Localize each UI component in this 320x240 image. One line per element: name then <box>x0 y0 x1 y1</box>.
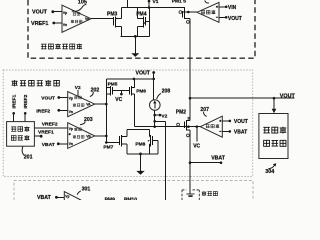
transistor PM3 <box>107 12 122 28</box>
node V2 <box>153 114 156 117</box>
wire PM8 gate (diode connect) <box>153 141 159 154</box>
node V1 (cut at top) <box>148 0 150 8</box>
wire amp202 output to bus <box>95 103 107 105</box>
svg-text:Vn: Vn <box>69 142 73 146</box>
svg-text:208: 208 <box>162 89 171 95</box>
wire right vertical of mirror <box>148 8 150 37</box>
svg-text:Vp: Vp <box>63 11 67 15</box>
transistor PM7 <box>103 135 127 151</box>
node VBAT (207 input) <box>222 130 228 132</box>
wire PM3 drain down <box>121 26 123 36</box>
node VBAT (right mid) <box>190 162 221 164</box>
svg-text:301: 301 <box>82 187 91 193</box>
svg-text:201: 201 <box>24 155 33 161</box>
wire PM5/PM6 gate tie with VC tap <box>113 91 130 94</box>
svg-text:207: 207 <box>200 107 209 113</box>
svg-text:202: 202 <box>91 87 100 93</box>
svg-text:IREF2: IREF2 <box>23 94 29 108</box>
transistor PM1 <box>172 0 190 23</box>
wire VOUT to amp 105 <box>54 11 62 13</box>
wire VREF1 to amp 105 <box>55 22 62 24</box>
svg-text:Vn: Vn <box>69 110 73 114</box>
wire arrow into other-system box <box>273 98 275 109</box>
reference bias voltage box 基准偏置电压 (201) <box>7 122 35 147</box>
svg-text:PM9: PM9 <box>105 197 116 200</box>
ground (below PM7/PM8) <box>140 154 142 171</box>
svg-text:PM10: PM10 <box>124 197 137 200</box>
svg-text:PM1: PM1 <box>172 0 182 5</box>
transistor PM6 <box>130 86 147 96</box>
svg-text:PM8: PM8 <box>135 142 145 148</box>
dashed border: bottom section box <box>14 181 253 200</box>
op-amp 202 (constant current amplifier) <box>68 92 95 117</box>
svg-text:Vo: Vo <box>85 17 89 21</box>
other system circuit box 其他系统电路 <box>259 114 288 159</box>
wire top rail <box>122 7 185 9</box>
wire PM6 source riser <box>133 79 135 88</box>
wire PM4 source riser <box>137 8 139 19</box>
svg-text:Vp: Vp <box>69 127 73 131</box>
svg-text:VBAT: VBAT <box>211 156 226 162</box>
wire PM5/PM6 source rail <box>106 78 153 80</box>
section label 输入控制部分 <box>41 44 82 50</box>
dashed border: charge control section box <box>3 70 253 177</box>
svg-text:VIN: VIN <box>228 5 237 11</box>
svg-text:V2: V2 <box>161 114 167 120</box>
svg-text:Vp: Vp <box>69 96 73 100</box>
svg-text:VOUT: VOUT <box>136 71 151 77</box>
svg-text:VC: VC <box>115 97 122 103</box>
svg-text:V1: V1 <box>153 0 159 5</box>
wire comparator/PM2 gate line <box>134 126 200 128</box>
svg-text:Vp: Vp <box>65 195 69 199</box>
svg-text:VC: VC <box>193 143 200 149</box>
svg-text:VOUT: VOUT <box>32 10 48 16</box>
op-amp 203 (constant voltage amplifier) <box>68 123 95 149</box>
svg-text:PM7: PM7 <box>103 145 113 151</box>
wire below current source <box>154 110 156 126</box>
svg-text:VBAT: VBAT <box>234 130 247 136</box>
svg-text:IREF2: IREF2 <box>36 108 50 114</box>
node VOUT (comparator input) <box>219 16 225 18</box>
svg-text:VOUT: VOUT <box>234 119 248 125</box>
svg-text:304: 304 <box>265 169 274 175</box>
current source 208 <box>150 100 161 111</box>
svg-text:VBAT: VBAT <box>37 195 52 200</box>
leader curve (cut label 106) <box>205 0 209 3</box>
dashed border: input control section box <box>28 0 255 58</box>
wire PM4 drain/gate to right vertical <box>138 22 150 37</box>
wire riser to top edge <box>127 0 129 8</box>
transistor PM5 <box>106 81 117 95</box>
comparator 207 <box>200 116 222 137</box>
svg-text:PM2: PM2 <box>176 109 187 115</box>
wire bottom rail of mirror <box>121 35 150 37</box>
wire left bus (amp outputs / PM5 drain) <box>105 79 107 142</box>
comparator (top, label cut) <box>197 2 219 22</box>
wire PM6 drain down to comparator wire <box>133 94 135 127</box>
svg-text:IREF1: IREF1 <box>12 94 18 108</box>
wire PM8 source down <box>149 144 151 154</box>
wire PM7/PM8 bottom rail <box>127 153 158 155</box>
svg-text:VOUT: VOUT <box>228 16 242 22</box>
wire PM7 source down <box>126 144 128 154</box>
wire amp203 output to bus <box>95 135 107 137</box>
wire comparator output to PM1 gate <box>182 11 197 13</box>
svg-text:VREF1: VREF1 <box>38 130 54 136</box>
battery 锂电池 (dashed enclosure) <box>182 190 217 200</box>
node VIN <box>219 6 225 8</box>
wire gate line to PM7 <box>106 141 119 143</box>
op-amp 105 (error amplifier) <box>62 5 91 32</box>
svg-text:VOUT: VOUT <box>280 93 296 99</box>
ground (below PM3/PM4) <box>134 36 136 53</box>
node VOUT (207 input) <box>222 120 228 122</box>
wire PM8 drain riser <box>149 130 151 137</box>
transistor PM4 <box>136 12 147 28</box>
svg-text:PM5: PM5 <box>108 81 118 87</box>
wire PM2 drain down to VBAT junction <box>189 130 191 194</box>
wire VOUT down to current source <box>153 73 155 100</box>
svg-text:VREF1: VREF1 <box>31 21 48 27</box>
op-amp 301 (cut at bottom) <box>64 192 80 208</box>
wire VOUT rail (to other system circuit) <box>190 97 294 99</box>
svg-text:VA: VA <box>86 103 91 107</box>
transistor PM2 <box>176 109 191 136</box>
svg-text:VOUT: VOUT <box>41 95 55 101</box>
wire amp105 output to PM3 gate <box>91 18 114 20</box>
node VC (comparator 207) <box>196 127 198 142</box>
svg-text:VREF2: VREF2 <box>42 122 58 128</box>
wire PM1 drain long vertical bus <box>189 19 191 121</box>
svg-text:PM6: PM6 <box>136 88 146 94</box>
wire PM7 drain riser and top tie <box>127 130 150 137</box>
wire PM3 source to top rail <box>121 8 123 19</box>
section label 充电控制部分 <box>12 80 60 86</box>
svg-text:VBAT: VBAT <box>42 142 55 148</box>
transistor PM8 <box>135 135 152 148</box>
wire junction to long vertical <box>153 120 156 123</box>
svg-text:VB: VB <box>86 134 91 138</box>
svg-text:Vn: Vn <box>63 23 67 27</box>
